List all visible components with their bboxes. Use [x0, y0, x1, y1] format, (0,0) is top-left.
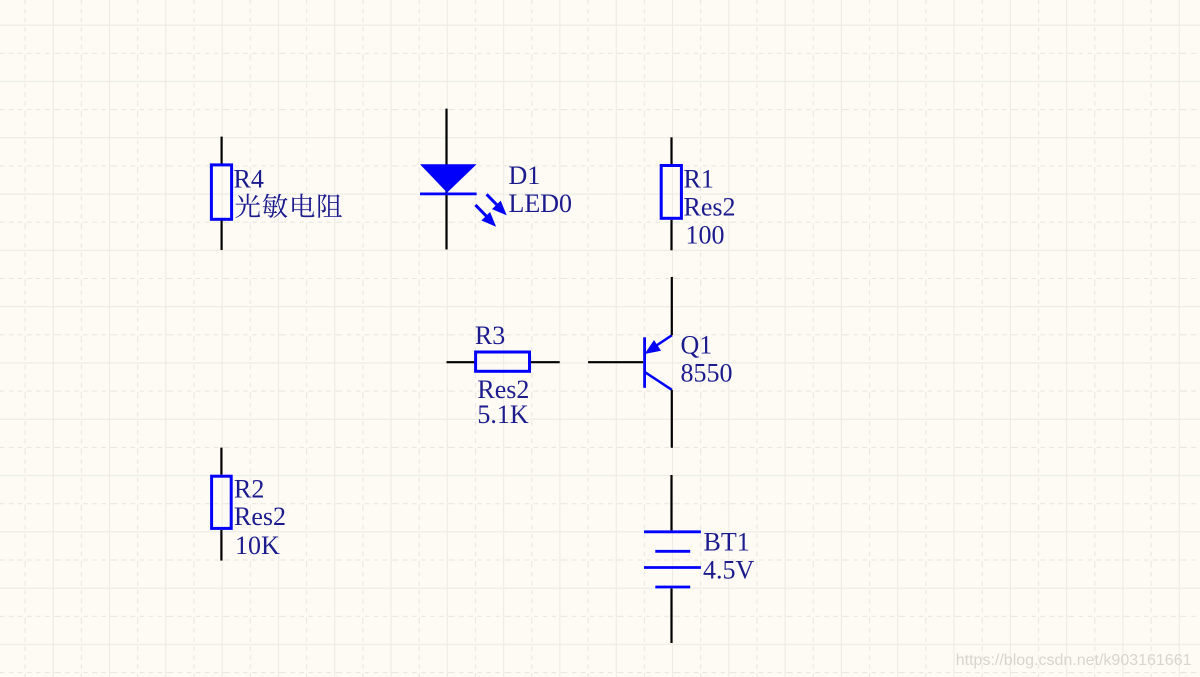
comment 光敏电阻 [235, 194, 342, 218]
resistor R2 [212, 448, 286, 561]
svg-text:LED0: LED0 [509, 189, 573, 218]
wire through D1 [445, 109, 447, 250]
svg-text:BT1: BT1 [704, 527, 750, 556]
svg-text:4.5V: 4.5V [703, 555, 755, 584]
D1 light arrow 2 [475, 205, 495, 226]
resistor R4 body [211, 165, 231, 219]
wire pin 2 of R2 [220, 530, 222, 561]
LED D1 [420, 109, 572, 250]
D1 anode triangle [420, 164, 477, 192]
Q1 emitter diagonal with arrow [646, 335, 672, 353]
wire pin 2 of R4 [221, 221, 223, 251]
resistor R1 body [661, 166, 681, 219]
wire pin 1 of R1 [670, 137, 672, 164]
battery BT1 [644, 475, 755, 643]
resistor R2 body [212, 476, 232, 528]
BT1 long plate 1 [644, 530, 701, 533]
resistor R1 [661, 137, 735, 250]
wire pin 1 of R3 [447, 361, 475, 363]
resistor R4 [211, 137, 342, 250]
wire pin 1 of R4 [221, 137, 223, 164]
svg-text:R1: R1 [684, 164, 714, 193]
BT1 long plate 2 [644, 566, 701, 569]
wire to base of Q1 [588, 361, 643, 363]
svg-text:R3: R3 [475, 321, 505, 350]
BT1 short plate 2 [655, 586, 690, 589]
wire pin 2 of R3 [531, 361, 560, 363]
resistor R3 body [476, 352, 530, 371]
Q1 base bar [643, 337, 646, 388]
wire pin 1 of R2 [220, 448, 222, 475]
svg-text:https://blog.csdn.net/k9031616: https://blog.csdn.net/k903161661 [956, 652, 1192, 669]
svg-text:Res2: Res2 [234, 502, 286, 531]
svg-text:R2: R2 [234, 475, 264, 504]
BT1 short plate 1 [655, 550, 690, 553]
svg-text:100: 100 [686, 220, 725, 249]
D1 cathode bar [420, 192, 477, 195]
wire from emitter of Q1 [671, 277, 673, 335]
svg-text:8550: 8550 [681, 359, 733, 388]
D1 light arrow 1 [487, 194, 506, 214]
wire from battery negative [670, 589, 672, 644]
svg-text:5.1K: 5.1K [477, 400, 529, 429]
svg-text:R4: R4 [234, 164, 264, 193]
transistor Q1 [588, 277, 732, 448]
wire to battery positive [670, 475, 672, 530]
wire from collector of Q1 [671, 390, 673, 448]
svg-text:Res2: Res2 [684, 192, 736, 221]
svg-text:10K: 10K [235, 531, 280, 560]
svg-text:D1: D1 [509, 161, 541, 190]
Q1 collector diagonal [645, 372, 672, 390]
resistor R3 [447, 321, 560, 429]
wire pin 2 of R1 [670, 220, 672, 251]
svg-text:Q1: Q1 [681, 331, 713, 360]
